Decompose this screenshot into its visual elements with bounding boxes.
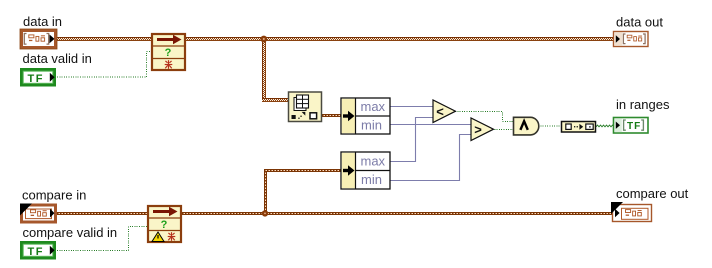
wire: U2 to compare out terminal (182, 212, 612, 215)
wire: U1 to data out terminal (top long array wire) (186, 37, 614, 41)
svg-text:min: min (361, 172, 382, 187)
control terminal "data valid in" (TF) (22, 70, 55, 86)
wire: &lt; output to AND top input (green dotted) (455, 112, 513, 122)
indicator terminal "in ranges" (TF array) (614, 118, 649, 134)
svg-text:TF: TF (28, 246, 44, 258)
wire: build-array node to in ranges terminal (green zigzag, boolean array) (596, 125, 614, 127)
svg-text:<: < (436, 104, 444, 119)
wire: data valid in to U1 (green dotted) (57, 52, 152, 78)
wire: compare valid in to U2 (green dotted) (57, 227, 148, 251)
svg-text:min: min (361, 118, 382, 133)
wire: max1 out to &lt; top input (purple) (390, 106, 433, 108)
control terminal "compare in" (20, 204, 56, 223)
svg-text:max: max (361, 99, 386, 114)
svg-text:compare in: compare in (22, 187, 86, 202)
indicator terminal "data out" (614, 32, 649, 47)
wire: branch horizontal into max/min 2 (264, 169, 341, 172)
wire: min2 out to &gt; bottom input (390, 135, 471, 181)
wire: branch vertical up from bottom wire (264, 171, 267, 213)
svg-text:data in: data in (23, 14, 62, 29)
svg-text:TF: TF (627, 121, 641, 132)
wire: AND output to build-array node (green dotted) (538, 125, 561, 127)
wire: data in terminal to U1 (1D FXP array, brown hatched) (54, 37, 151, 41)
svg-text:data out: data out (616, 14, 663, 29)
wire: compare in terminal to U2 (54, 212, 147, 215)
svg-text:TF: TF (28, 73, 44, 85)
junction dot on top wire (260, 36, 267, 43)
control terminal "data in" (20, 29, 57, 49)
wire: branch horizontal into grid node (262, 98, 289, 102)
svg-text:>: > (474, 122, 482, 137)
svg-text:compare out: compare out (616, 186, 689, 201)
wire: min1 out to &gt; top input (390, 124, 471, 126)
wire: &gt; output to AND bottom input (green dotted) (492, 129, 513, 131)
svg-text:in ranges: in ranges (616, 97, 670, 112)
wire: max2 out to &lt; bottom input (390, 118, 433, 162)
indicator terminal "compare out" (611, 202, 652, 222)
svg-text:data valid in: data valid in (23, 51, 92, 66)
control terminal "compare valid in" (TF) (22, 243, 55, 259)
svg-text:max: max (361, 154, 386, 169)
junction dot on bottom wire (262, 210, 268, 216)
svg-text:compare valid in: compare valid in (23, 225, 118, 240)
wire: junction vertical branch down from top wire (262, 41, 266, 101)
svg-text:?: ? (165, 47, 172, 59)
svg-text:?: ? (161, 219, 168, 231)
wire: grid node to max/min 1 (scalar fxp) (322, 114, 341, 117)
